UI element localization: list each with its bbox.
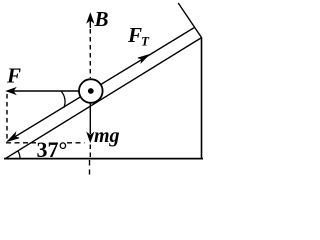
- dashed vertical below mg arrow: [89, 145, 91, 159]
- mg arrow (weight, downward): [89, 104, 91, 135]
- dashed construction line right of 37 label: [67, 142, 85, 144]
- tension F_T arrowhead (up-slope): [138, 55, 149, 63]
- svg-text:mg: mg: [94, 125, 120, 147]
- wire circle (current out of page): [79, 79, 103, 103]
- incline surface (hypotenuse): [5, 38, 202, 159]
- force F arrow (horizontal, pointing left): [13, 90, 79, 92]
- svg-text:T: T: [141, 34, 150, 49]
- angle arc at apex: [18, 151, 20, 159]
- slope-direction line (tension / resultant): [8, 27, 196, 141]
- svg-text:B: B: [94, 7, 109, 31]
- angle arc between F line and slope line: [61, 91, 65, 108]
- B field dashed axis (above circle): [89, 29, 91, 78]
- dashed construction line left of 37 label: [6, 142, 36, 144]
- left dashed vertical construction line: [6, 94, 8, 139]
- wall top slanted edge: [178, 3, 201, 38]
- wall right vertical edge: [201, 38, 203, 159]
- svg-text:F: F: [127, 23, 142, 47]
- B field arrow (solid stem + head): [89, 18, 91, 28]
- incline base line: [4, 158, 203, 160]
- resultant arrowhead (down-slope): [8, 133, 20, 142]
- svg-text:F: F: [6, 64, 21, 88]
- current dot: [88, 88, 94, 94]
- dashed vertical below ground line: [89, 160, 91, 175]
- svg-text:37°: 37°: [37, 137, 68, 162]
